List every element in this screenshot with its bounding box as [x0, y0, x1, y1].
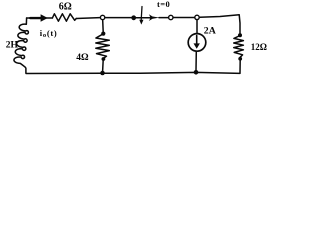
svg-text:t=0: t=0	[157, 0, 170, 9]
junction dot R3 bottom	[238, 57, 242, 61]
current source circle	[188, 34, 206, 52]
wire node to switch dot	[106, 17, 132, 19]
current arrow shaft i_o	[30, 17, 41, 19]
resistor R3 12ohm zigzag	[234, 36, 244, 58]
wire top rail right with corner down	[200, 15, 240, 34]
wire between switch contacts	[174, 17, 195, 19]
junction dot source bottom rail	[194, 70, 199, 75]
junction dot R2 bottom of zigzag	[102, 57, 106, 61]
svg-text:4Ω: 4Ω	[76, 53, 89, 63]
current source bottom stub	[195, 51, 197, 70]
svg-text:6Ω: 6Ω	[59, 2, 72, 13]
current source arrow head	[194, 43, 200, 48]
node open circle top of R2	[100, 15, 104, 19]
junction dot switch left	[131, 15, 136, 20]
svg-text:2H: 2H	[6, 40, 19, 50]
inductor L1 coil	[14, 18, 29, 73]
switch arm arrow head (barbed)	[149, 14, 160, 21]
wire R1 to node circle	[76, 17, 100, 20]
switch contact circle 1	[169, 15, 173, 19]
current source top stub	[196, 20, 198, 34]
switch contact circle 2	[195, 15, 199, 19]
wire top rail left	[27, 17, 53, 19]
junction dot R2 top of zigzag	[101, 31, 105, 35]
svg-text:io(t): io(t)	[40, 28, 58, 39]
switch motion arrow head	[139, 20, 143, 25]
current source arrow shaft	[196, 36, 198, 44]
svg-text:12Ω: 12Ω	[251, 42, 267, 52]
resistor R2 4ohm stub top	[102, 20, 105, 32]
junction dot R3 top	[238, 33, 242, 37]
svg-text:2A: 2A	[204, 25, 216, 36]
current arrow head i_o	[41, 14, 48, 22]
resistor R3 stub bottom	[239, 60, 241, 74]
wire switch arm with arrowhead tip	[136, 17, 150, 19]
switch motion arrow vertical bar	[140, 7, 143, 21]
bottom rail	[26, 72, 240, 73]
resistor R2 stub bottom	[102, 60, 105, 72]
wire arrow tip to contact 1	[159, 17, 168, 19]
resistor R2 4ohm zigzag	[96, 34, 110, 59]
resistor R1 6ohm zigzag	[52, 14, 76, 21]
junction dot R2 bottom rail	[100, 71, 105, 76]
